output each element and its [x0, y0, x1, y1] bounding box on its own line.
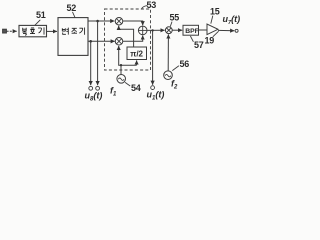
label 55: [170, 13, 180, 27]
wire bottom output of 52 to mixer M2: [88, 40, 115, 42]
svg-text:57: 57: [194, 40, 204, 50]
wire oscillator 56 to mixer 55: [167, 34, 169, 70]
node u1 tap: [151, 29, 153, 31]
dashed box 53: [105, 9, 151, 70]
label 57: [190, 36, 203, 50]
label 19: [205, 31, 219, 45]
mixer M1: [115, 17, 123, 25]
output wire: [218, 29, 234, 31]
svg-text:55: 55: [170, 13, 180, 23]
adder: [138, 26, 147, 35]
amplifier 15: [207, 24, 218, 35]
label 15: [210, 7, 220, 24]
wire M1 output to adder: [123, 21, 143, 25]
svg-text:52: 52: [67, 3, 77, 13]
decoder block 51: [19, 25, 47, 36]
wire top output of 52 to mixer M1: [88, 20, 114, 22]
wire adder to mixer 55: [147, 29, 165, 31]
wire input to decoder: [7, 30, 17, 32]
wire M2 output to adder: [123, 36, 143, 42]
svg-text:u1(t): u1(t): [147, 90, 165, 102]
wire mixer 55 to BPF: [172, 29, 182, 31]
wire oscillator line into pi/2 bottom: [136, 60, 138, 65]
terminal circle left: [89, 86, 93, 90]
wire tap down to terminal u1: [152, 30, 154, 84]
oscillator 54: [117, 75, 126, 84]
label 51: [35, 10, 46, 25]
svg-text:51: 51: [36, 10, 46, 20]
wire 51 to 52: [47, 30, 58, 32]
text modulator korean 52: [62, 28, 84, 35]
svg-text:BPF: BPF: [185, 28, 199, 35]
mixer 55: [165, 27, 172, 34]
wire oscillator 54 to junction: [120, 65, 122, 74]
svg-text:56: 56: [180, 59, 190, 69]
BPF block 57: [183, 25, 199, 35]
node on top wire: [96, 20, 99, 23]
terminal circle right: [96, 86, 100, 90]
svg-text:u8(t): u8(t): [85, 91, 103, 102]
label 52: [67, 3, 77, 18]
output terminal: [235, 29, 238, 32]
modulator block 52: [58, 18, 88, 56]
text decoder korean 51: [22, 27, 44, 35]
mixer M2: [115, 38, 123, 46]
svg-text:19: 19: [205, 36, 215, 46]
svg-text:54: 54: [131, 83, 141, 93]
wire BPF to amplifier: [199, 29, 207, 31]
oscillator 56: [164, 71, 173, 80]
wire pi/2 output to M1 carrier input: [119, 26, 134, 47]
node oscillator junction: [120, 64, 122, 66]
wire tap down to terminal u8 (from top wire): [97, 21, 99, 85]
wire tap down to terminal u8 (from bottom wire): [90, 41, 92, 85]
label 54: [125, 82, 141, 93]
terminal circle u1: [151, 86, 155, 90]
svg-text:15: 15: [210, 7, 220, 17]
pi/2 block: [127, 47, 147, 60]
svg-text:π/2: π/2: [130, 49, 143, 58]
carrier distribution wire: [119, 46, 137, 65]
label 56: [172, 59, 189, 71]
label 53: [141, 0, 156, 10]
node on bottom wire: [89, 40, 92, 43]
svg-text:53: 53: [147, 0, 157, 10]
input terminal: [3, 29, 7, 33]
